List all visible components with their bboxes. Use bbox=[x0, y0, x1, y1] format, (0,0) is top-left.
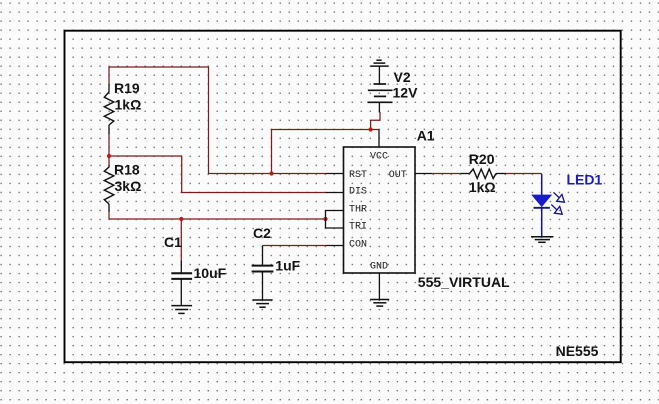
svg-text:TRI: TRI bbox=[349, 222, 367, 233]
svg-text:R19: R19 bbox=[114, 80, 140, 96]
svg-text:1kΩ: 1kΩ bbox=[469, 179, 496, 195]
svg-text:1kΩ: 1kΩ bbox=[115, 96, 142, 112]
svg-text:THR: THR bbox=[349, 205, 367, 216]
svg-text:C1: C1 bbox=[164, 234, 182, 250]
svg-text:DIS: DIS bbox=[349, 187, 367, 198]
svg-text:RST: RST bbox=[349, 170, 367, 181]
svg-text:NE555: NE555 bbox=[556, 343, 599, 359]
svg-text:C2: C2 bbox=[253, 225, 271, 241]
svg-text:R20: R20 bbox=[469, 151, 495, 167]
svg-text:V2: V2 bbox=[394, 69, 411, 85]
svg-text:OUT: OUT bbox=[389, 170, 407, 181]
svg-text:3kΩ: 3kΩ bbox=[115, 178, 142, 194]
svg-text:CON: CON bbox=[349, 240, 367, 251]
svg-text:VCC: VCC bbox=[370, 152, 388, 163]
svg-text:10uF: 10uF bbox=[194, 265, 227, 281]
svg-text:555_VIRTUAL: 555_VIRTUAL bbox=[418, 274, 510, 290]
svg-text:R18: R18 bbox=[114, 162, 140, 178]
svg-text:LED1: LED1 bbox=[567, 172, 603, 188]
svg-text:12V: 12V bbox=[393, 85, 419, 101]
svg-text:GND: GND bbox=[370, 262, 388, 273]
svg-text:A1: A1 bbox=[417, 128, 435, 144]
svg-text:1uF: 1uF bbox=[275, 258, 300, 274]
